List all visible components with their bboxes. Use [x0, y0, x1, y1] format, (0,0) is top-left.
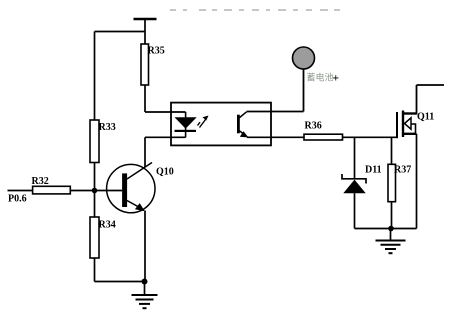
- svg-text:R36: R36: [305, 121, 322, 132]
- svg-text:P0.6: P0.6: [8, 194, 27, 205]
- svg-text:Q10: Q10: [156, 167, 174, 178]
- svg-text:R37: R37: [394, 165, 411, 176]
- svg-text:R32: R32: [32, 176, 49, 187]
- svg-text:+: +: [333, 73, 340, 85]
- svg-text:D11: D11: [365, 165, 382, 176]
- svg-text:R35: R35: [148, 46, 165, 57]
- svg-text:R33: R33: [99, 122, 116, 133]
- svg-text:R34: R34: [99, 220, 116, 231]
- svg-text:Q11: Q11: [417, 112, 434, 123]
- svg-text:蓄电池: 蓄电池: [307, 72, 334, 83]
